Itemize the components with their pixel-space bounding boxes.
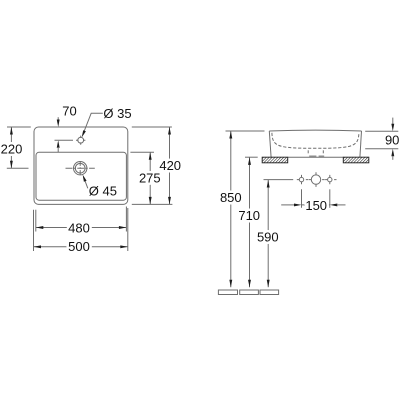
floor tile symbol 2 <box>240 290 259 295</box>
left supply hole <box>297 175 308 184</box>
dimension 420 (overall depth) <box>159 127 181 204</box>
dimension 70 (faucet hole from rim) <box>55 104 77 153</box>
label Ø 45 with leader <box>83 175 117 199</box>
svg-text:275: 275 <box>139 170 161 185</box>
basin profile rim (side view) <box>269 129 361 132</box>
floor tile symbol 1 <box>218 290 237 295</box>
bowl interior hidden line (dashed) <box>272 133 359 149</box>
drain horizontal centerline <box>66 167 95 169</box>
svg-text:150: 150 <box>305 198 327 213</box>
dimension 850 (floor to rim) <box>220 131 242 287</box>
dimension 150 (fitting spacing) <box>281 198 345 213</box>
inner bowl edge (plan view) <box>36 152 126 200</box>
countertop surface line <box>245 156 343 158</box>
dimension 590 (floor to fittings) <box>257 180 279 287</box>
svg-text:Ø 45: Ø 45 <box>89 184 117 199</box>
right extension lines (plan) <box>130 127 172 204</box>
220 extension lines <box>7 127 31 168</box>
dimension 275 (bowl depth) <box>139 152 161 204</box>
fittings extension line (to 590) <box>264 179 294 181</box>
right supply hole <box>325 175 336 184</box>
floor tile symbol 3 <box>260 290 279 295</box>
faucet hole Ø35 (plan) <box>76 136 85 145</box>
outer basin rim (plan view) <box>34 127 128 204</box>
basin profile right side <box>360 131 362 157</box>
drain vertical centerline <box>79 161 81 175</box>
svg-text:500: 500 <box>68 239 90 254</box>
svg-text:420: 420 <box>159 158 181 173</box>
drain hole Ø45 (plan) <box>74 162 87 175</box>
150 extension lines <box>302 189 330 208</box>
dimension 480 (bowl width) <box>36 221 127 236</box>
svg-text:Ø 35: Ø 35 <box>103 106 131 121</box>
90 extension lines <box>365 131 398 149</box>
dimension 500 (overall width) <box>34 239 128 254</box>
basin profile left side <box>269 131 271 157</box>
svg-text:480: 480 <box>68 221 90 236</box>
dimension 220 (left) <box>1 127 23 168</box>
dimension 710 (floor to countertop) <box>238 157 260 287</box>
svg-text:70: 70 <box>62 104 76 119</box>
label Ø 35 with leader <box>82 106 132 138</box>
svg-text:850: 850 <box>220 190 242 205</box>
dimension 90 (basin height) <box>385 118 399 160</box>
countertop hatched section left <box>262 157 288 163</box>
svg-text:710: 710 <box>238 208 260 223</box>
center tap hole <box>309 172 325 187</box>
svg-text:220: 220 <box>1 142 23 157</box>
850 extension line (rim level) <box>226 130 265 132</box>
svg-text:590: 590 <box>257 229 279 244</box>
bottom extension lines (plan) <box>34 207 128 252</box>
drain hidden marks (side) <box>308 150 324 156</box>
countertop hatched section right <box>343 157 369 163</box>
svg-text:90: 90 <box>385 133 399 148</box>
